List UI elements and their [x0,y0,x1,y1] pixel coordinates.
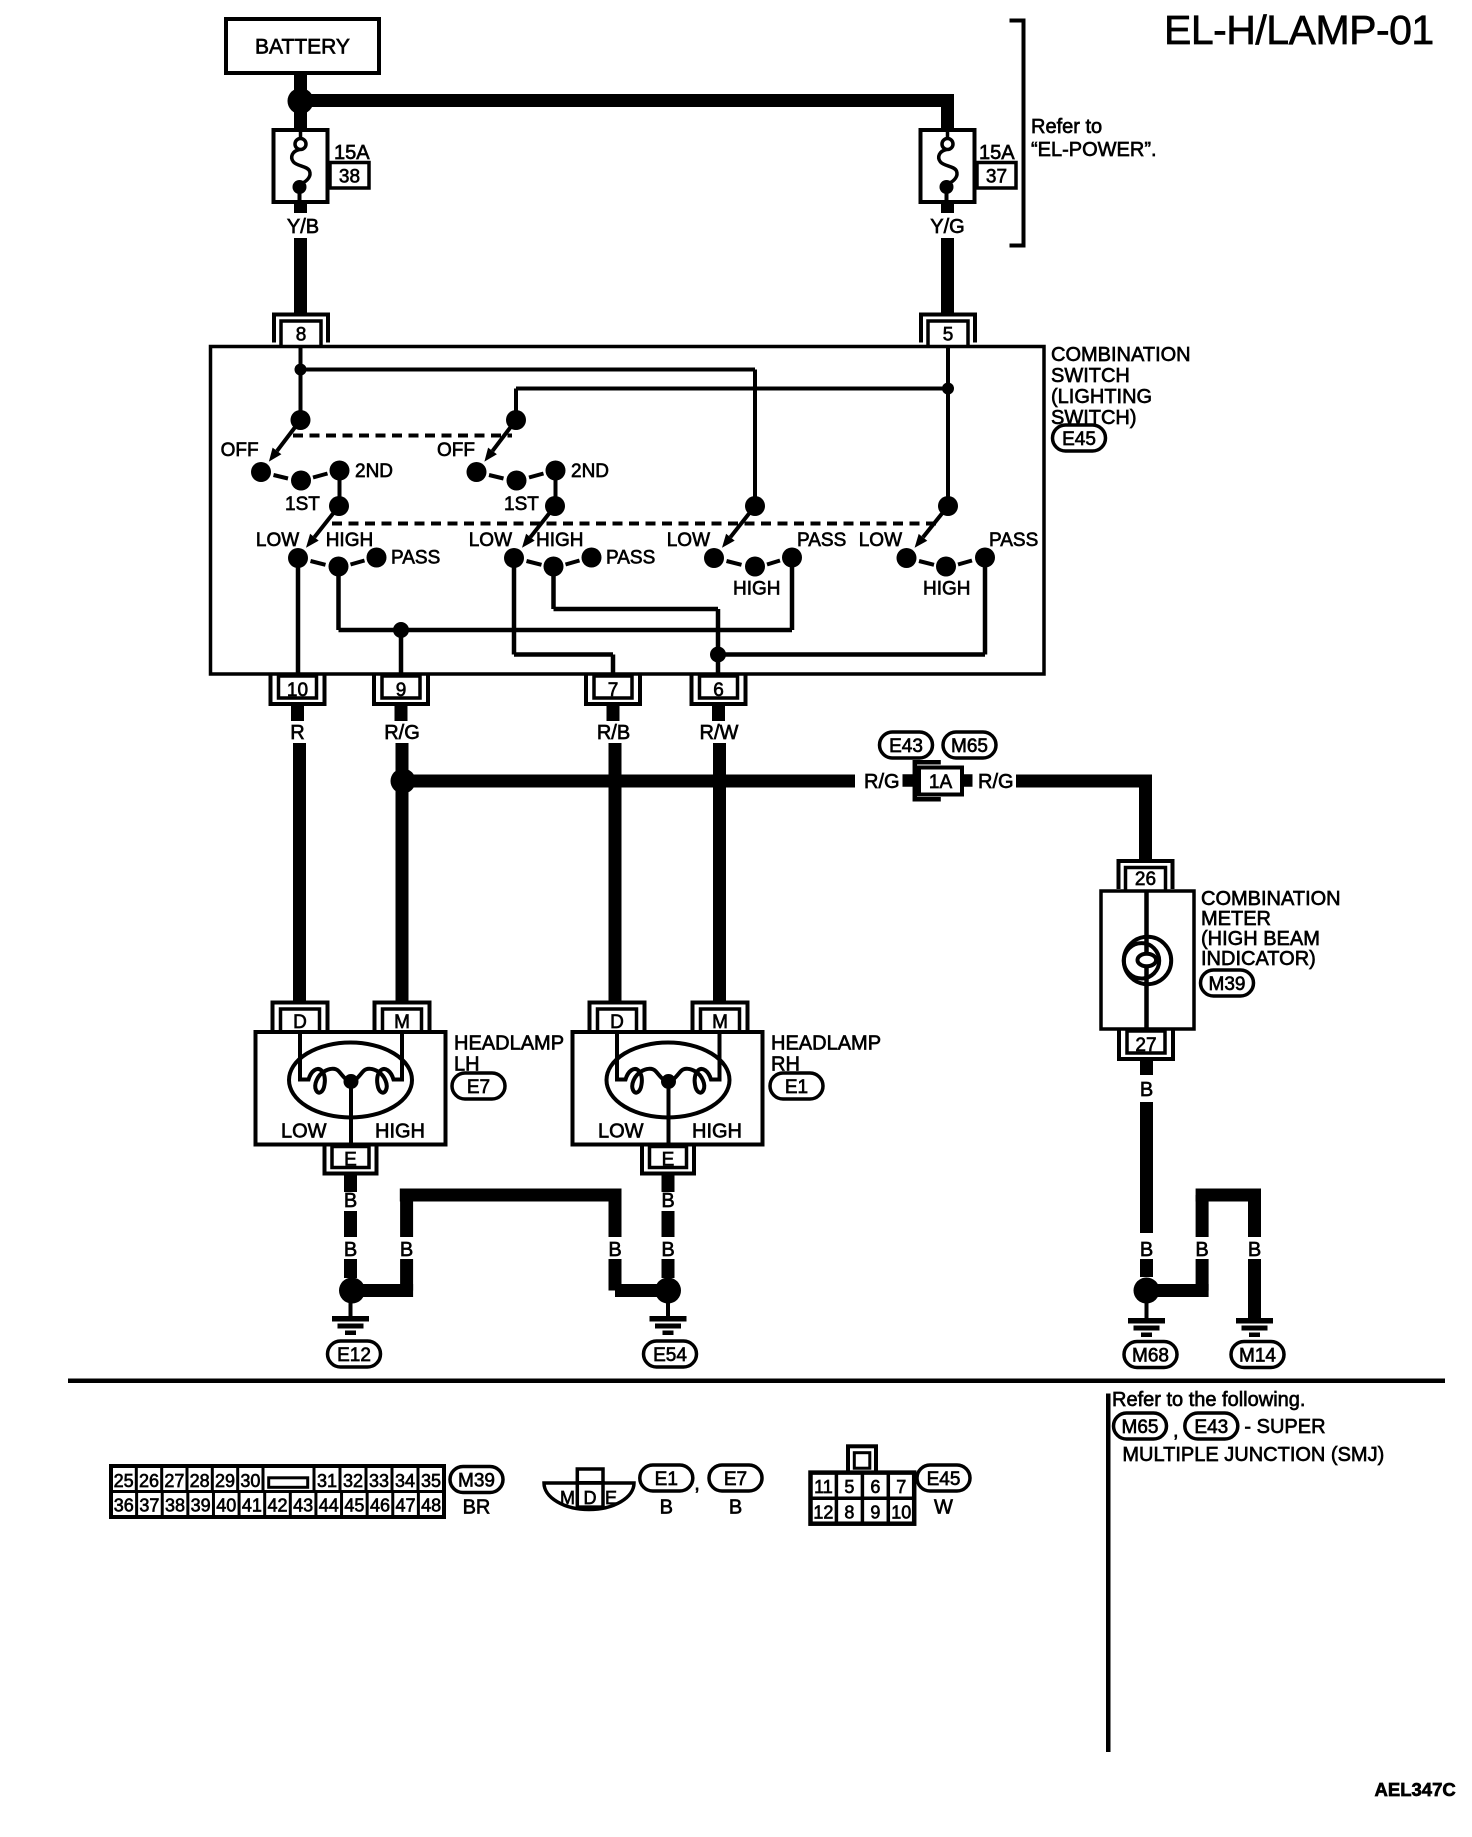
svg-text:PASS: PASS [797,530,846,551]
svg-text:38: 38 [339,167,360,188]
svg-text:PASS: PASS [989,530,1038,551]
connector ref E7 oval (legend) [709,1465,762,1491]
svg-text:38: 38 [165,1496,185,1516]
high beam indicator bulb [1124,891,1171,1029]
label B loop LH [399,1237,415,1259]
svg-text:E: E [605,1488,617,1508]
gang dashed link row 2 [332,522,940,526]
labels B headlamp LH [344,1190,357,1261]
svg-text:E1: E1 [655,1469,678,1490]
ground M14 [1236,1303,1273,1337]
combination switch box E45 [211,347,1045,675]
svg-text:9: 9 [870,1503,880,1523]
svg-text:35: 35 [421,1471,441,1491]
pin 5 connector E45 [921,315,975,348]
svg-text:HIGH: HIGH [326,530,374,551]
pin 26 connector M39 [1119,861,1173,892]
combination meter box M39 [1101,891,1194,1029]
svg-text:10: 10 [287,680,308,701]
svg-text:26: 26 [139,1471,159,1491]
switch 1 dimmer pivot [329,496,349,516]
svg-text:AEL347C: AEL347C [1375,1779,1456,1800]
svg-text:M65: M65 [951,736,988,757]
wire R/G to SMJ 1A [403,775,855,788]
connector ref E7 oval [452,1073,505,1099]
switch 2 dimmer pivot [545,496,565,516]
switch 3 PASS contact [782,548,802,568]
svg-text:2ND: 2ND [355,461,393,482]
wire 2ND to dimmer pivot switch 1 [338,471,342,507]
label headlamp RH [771,1033,881,1076]
svg-text:BR: BR [463,1497,491,1519]
svg-text:42: 42 [267,1496,287,1516]
svg-text:48: 48 [421,1496,441,1516]
svg-text:15A: 15A [979,142,1015,164]
svg-text:1ST: 1ST [285,494,320,515]
svg-text:SWITCH: SWITCH [1051,365,1130,387]
switch 3 pivot [745,496,765,516]
connector ref E43 oval [880,732,933,758]
connector ref M65 oval (legend) [1114,1413,1167,1439]
svg-text:LOW: LOW [256,530,299,551]
switch 1 2ND contact [330,461,350,481]
svg-text:28: 28 [190,1471,210,1491]
wire R/B pin7 to headlamp RH [607,704,622,1003]
svg-text:1ST: 1ST [504,494,539,515]
svg-text:46: 46 [370,1496,390,1516]
wire Y/G fuse 37 to pin 5 [941,202,954,315]
wire pin 5 to switch pivots [516,347,948,507]
svg-text:29: 29 [215,1471,235,1491]
pin 6 connector E45 [692,676,746,705]
svg-text:LOW: LOW [281,1121,327,1143]
pin M connector headlamp RH [693,1003,748,1034]
pin E connector headlamp RH [642,1146,694,1174]
svg-text:EL-H/LAMP-01: EL-H/LAMP-01 [1164,7,1434,53]
switch 3 LOW contact [704,548,724,568]
ground ref M68 oval [1124,1342,1177,1368]
pin M connector headlamp LH [375,1003,430,1034]
node pin5 branch [942,383,954,395]
switch 1 1ST contact [291,471,311,491]
svg-text:B: B [344,1239,357,1261]
svg-text:D: D [584,1488,597,1508]
switch 2 dimmer links [527,561,580,565]
svg-text:E12: E12 [337,1345,371,1366]
svg-text:45: 45 [344,1496,364,1516]
svg-text:E1: E1 [785,1077,808,1098]
ground ref M14 oval [1231,1342,1284,1368]
svg-text:HIGH: HIGH [692,1121,742,1143]
svg-text:31: 31 [317,1471,337,1491]
switch 3 HIGH contact [745,557,765,577]
switch 1 PASS contact [367,548,387,568]
svg-text:8: 8 [296,325,307,346]
switch 1 LOW contact [288,548,308,568]
switch 2 dimmer arrow [530,506,555,537]
svg-text:37: 37 [986,167,1007,188]
wire switch1 HIGH / switch3 PASS to pin 9 [339,558,793,675]
svg-text:HEADLAMP: HEADLAMP [771,1033,881,1055]
svg-text:MULTIPLE JUNCTION (SMJ): MULTIPLE JUNCTION (SMJ) [1122,1444,1384,1466]
svg-text:BATTERY: BATTERY [255,36,350,59]
connector ref E45 oval (legend) [917,1465,970,1491]
svg-text:COMBINATION: COMBINATION [1051,344,1191,366]
svg-text:B: B [1248,1239,1261,1261]
svg-text:HIGH: HIGH [536,530,584,551]
svg-text:41: 41 [242,1496,262,1516]
svg-text:33: 33 [369,1471,389,1491]
svg-text:E45: E45 [927,1469,961,1490]
pin 9 connector E45 [374,676,428,705]
switch 2 HIGH contact [544,557,564,577]
wire B headlamp RH ground [662,1173,675,1278]
stub left of 1A [903,774,914,787]
headlamp LH bulb [289,1032,412,1146]
svg-text:M: M [394,1012,410,1033]
labels B headlamp RH [661,1190,674,1261]
svg-text:,: , [1173,1420,1179,1442]
connector ref M39 oval [1201,970,1254,996]
separator line [68,1379,1445,1384]
svg-text:R/B: R/B [597,722,630,744]
wire switch2 LOW to pin 7 [514,558,613,674]
svg-text:D: D [293,1012,307,1033]
wire switch1 LOW to pin 10 [296,558,301,674]
switch 1 dimmer links [311,561,365,565]
switch 1 contact links [274,474,328,479]
svg-text:M14: M14 [1239,1345,1276,1366]
svg-text:5: 5 [943,325,954,346]
node pin 9 junction [393,622,409,638]
fuse 37 (15A) [921,130,975,202]
svg-text:COMBINATION: COMBINATION [1201,888,1341,910]
svg-text:M39: M39 [1209,974,1246,995]
headlamp LH box [256,1032,446,1145]
fuse number 37 [977,163,1016,189]
svg-text:27: 27 [164,1471,184,1491]
svg-text:44: 44 [319,1496,339,1516]
connector face E45 grid [811,1446,915,1523]
node headlamp RH ground junction [655,1278,681,1304]
svg-text:2ND: 2ND [571,461,609,482]
svg-text:34: 34 [395,1471,415,1491]
vertical divider line [1106,1394,1111,1753]
wire Y/B fuse 38 to pin 8 [294,202,307,315]
svg-text:B: B [344,1190,357,1212]
svg-text:E: E [662,1150,675,1171]
gang dashed link row 1 [293,434,512,438]
headlamp RH box [573,1032,763,1145]
svg-text:E43: E43 [889,736,923,757]
switch 1 pivot [291,410,311,430]
connector ref M65 oval [943,732,996,758]
wire 2ND to dimmer pivot switch 2 [554,471,558,507]
svg-text:B: B [608,1239,621,1261]
svg-text:HIGH: HIGH [923,579,971,600]
svg-text:12: 12 [813,1503,833,1523]
wire B meter to ground [1140,1059,1153,1277]
svg-text:37: 37 [139,1496,159,1516]
connector face headlamp (M D E) [544,1469,634,1510]
ground ref E54 oval [644,1341,697,1367]
switch 1 dimmer arrow [314,506,339,537]
svg-text:39: 39 [191,1496,211,1516]
connector ref E1 oval (legend) [640,1465,693,1491]
svg-text:M39: M39 [458,1470,495,1491]
svg-text:7: 7 [608,680,619,701]
svg-text:M: M [712,1012,728,1033]
svg-text:25: 25 [114,1471,134,1491]
svg-text:M65: M65 [1122,1417,1159,1438]
svg-text:B: B [1195,1239,1208,1261]
fuse 38 (15A) [274,130,328,202]
svg-text:HEADLAMP: HEADLAMP [454,1033,564,1055]
svg-text:,: , [694,1473,700,1495]
pin D connector headlamp RH [590,1003,645,1034]
label combination switch [1051,344,1191,429]
node R/G branch [391,769,416,794]
svg-text:32: 32 [343,1471,363,1491]
svg-text:Refer to the following.: Refer to the following. [1112,1389,1305,1411]
svg-text:E54: E54 [653,1345,687,1366]
wire junction to fuse 38 [294,101,307,130]
svg-text:PASS: PASS [606,548,655,569]
svg-text:Y/B: Y/B [287,216,319,238]
wire loop M68 to M14 [1150,1189,1261,1319]
wire battery to junction [294,73,307,102]
svg-text:(LIGHTING: (LIGHTING [1051,386,1152,408]
switch 1 wiper arrow [277,420,300,451]
label combination meter [1201,888,1341,970]
wire R/W pin6 to headlamp RH [712,704,726,1003]
switch 4 dimmer arrow [923,506,948,537]
label B loop RH [607,1237,623,1259]
svg-text:OFF: OFF [437,440,475,461]
svg-text:B: B [400,1239,413,1261]
connector ref M39 oval (legend) [450,1467,503,1493]
SMJ terminal 1A [915,762,962,799]
label B loop left [1194,1237,1210,1259]
svg-text:B: B [1140,1079,1153,1101]
wire R pin10 to headlamp LH [291,704,306,1003]
stub right of 1A [962,774,973,787]
svg-text:8: 8 [844,1503,854,1523]
node battery junction [288,88,314,114]
svg-text:“EL-POWER”.: “EL-POWER”. [1031,139,1157,161]
ground E54 [650,1301,687,1335]
connector ref E45 oval [1053,425,1106,451]
svg-text:40: 40 [216,1496,236,1516]
switch 1 OFF contact [251,462,271,482]
svg-text:E7: E7 [724,1469,747,1490]
battery [226,19,379,73]
svg-text:R/W: R/W [700,722,739,744]
svg-text:M68: M68 [1132,1345,1169,1366]
node pin 6 junction [710,647,726,663]
switch 4 HIGH contact [936,557,956,577]
svg-text:METER: METER [1201,908,1271,930]
note refer to EL-POWER [1031,116,1157,161]
switch 3 dimmer links [727,561,781,565]
svg-text:R/G: R/G [384,722,420,744]
svg-text:D: D [610,1012,624,1033]
svg-text:47: 47 [396,1496,416,1516]
svg-text:27: 27 [1135,1035,1156,1056]
node pin8 branch [295,364,307,376]
svg-text:E: E [344,1150,357,1171]
svg-text:HIGH: HIGH [375,1121,425,1143]
svg-text:R/G: R/G [978,771,1014,793]
connector face M39 grid [111,1466,444,1517]
ground ref E12 oval [328,1341,381,1367]
switch 4 pivot [938,496,958,516]
wire ground loop LH to RH [354,1189,666,1298]
svg-text:M: M [560,1488,575,1508]
svg-text:6: 6 [870,1477,880,1497]
svg-text:B: B [661,1239,674,1261]
headlamp RH bulb [607,1032,730,1146]
svg-text:Y/G: Y/G [930,216,964,238]
svg-text:B: B [1140,1239,1153,1261]
switch 2 1ST contact [507,471,527,491]
svg-text:R: R [290,722,304,744]
switch 2 2ND contact [546,461,566,481]
svg-text:LOW: LOW [469,530,512,551]
wire switch2 HIGH / switch4 PASS to pin 6 [554,558,986,675]
svg-text:- SUPER: - SUPER [1244,1416,1325,1438]
svg-text:15A: 15A [334,142,370,164]
svg-text:1A: 1A [929,772,953,793]
ground E12 [332,1301,369,1335]
svg-text:B: B [661,1190,674,1212]
switch 4 dimmer links [919,561,972,565]
svg-text:PASS: PASS [391,548,440,569]
connector ref E1 oval [770,1073,823,1099]
label B loop right [1247,1237,1263,1259]
ground M68 [1128,1303,1165,1337]
svg-text:W: W [934,1497,953,1519]
svg-text:9: 9 [396,680,407,701]
svg-text:7: 7 [896,1477,906,1497]
svg-text:5: 5 [844,1477,854,1497]
pin 10 connector E45 [271,676,325,705]
connector ref E43 oval (legend) [1185,1413,1238,1439]
label headlamp LH [454,1033,564,1076]
pin 7 connector E45 [586,676,640,705]
wire battery bus to fuse 37 [301,94,955,130]
svg-text:R/G: R/G [864,771,900,793]
svg-text:LOW: LOW [859,530,902,551]
switch 2 OFF contact [467,462,487,482]
bracket refer to EL-POWER [1010,21,1024,246]
wire R/G pin9 to headlamp LH [395,704,409,1003]
switch 2 wiper arrow [493,420,516,451]
switch 2 contact links [489,474,544,479]
switch 2 LOW contact [504,548,524,568]
pin E connector headlamp LH [325,1146,377,1174]
svg-text:E7: E7 [467,1077,490,1098]
svg-text:LOW: LOW [598,1121,644,1143]
svg-text:10: 10 [891,1503,911,1523]
fuse number 38 [330,163,369,189]
svg-text:B: B [729,1497,742,1519]
svg-text:LOW: LOW [667,530,710,551]
node meter ground junction [1134,1278,1160,1304]
switch 2 pivot [506,410,526,430]
svg-text:E43: E43 [1194,1417,1228,1438]
switch 4 LOW contact [897,548,917,568]
svg-text:Refer to: Refer to [1031,116,1102,138]
switch 1 HIGH contact [329,557,349,577]
svg-text:(HIGH BEAM: (HIGH BEAM [1201,928,1320,950]
pin D connector headlamp LH [273,1003,328,1034]
svg-text:26: 26 [1135,869,1156,890]
wire R/G to pin 26 [1016,775,1152,863]
svg-text:43: 43 [293,1496,313,1516]
switch 3 dimmer arrow [730,506,755,537]
pin 8 connector E45 [274,315,328,348]
svg-text:OFF: OFF [221,440,259,461]
svg-text:6: 6 [713,680,724,701]
wire B headlamp LH ground [344,1173,357,1278]
svg-text:B: B [660,1497,673,1519]
svg-text:E45: E45 [1062,429,1096,450]
switch 4 PASS contact [975,548,995,568]
svg-text:11: 11 [814,1477,833,1497]
svg-text:HIGH: HIGH [733,579,781,600]
svg-text:36: 36 [114,1496,134,1516]
node headlamp LH ground junction [339,1278,365,1304]
wire pin 8 to switch pivots [301,347,756,507]
pin 27 connector M39 [1119,1031,1173,1060]
switch 2 PASS contact [582,548,602,568]
svg-text:INDICATOR): INDICATOR) [1201,948,1316,970]
svg-text:30: 30 [240,1471,260,1491]
